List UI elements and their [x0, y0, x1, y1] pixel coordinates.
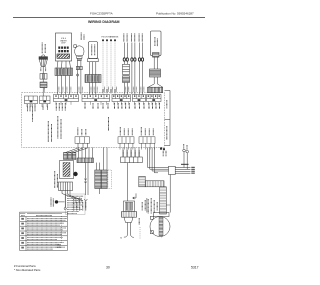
thermistor pair 3 wires	[139, 43, 141, 59]
dispenser heater bar	[57, 54, 70, 58]
terminal strip P3	[54, 95, 79, 102]
defrost heater wires	[96, 163, 98, 170]
auger connector J2	[85, 75, 101, 83]
terminal id marks	[160, 148, 165, 151]
start relay box	[169, 166, 176, 174]
legend table frame	[20, 212, 68, 250]
door switch label	[42, 43, 45, 54]
harness bundle vertical	[160, 187, 167, 214]
svg-text:30: 30	[106, 266, 110, 270]
board bottom header B3	[141, 127, 153, 136]
evap fan motor M2	[124, 201, 135, 212]
thermistor pair 2 wires	[131, 43, 133, 59]
svg-text:DISP: DISP	[61, 43, 66, 45]
compressor overload cap	[154, 213, 170, 217]
auger motor M1	[89, 42, 98, 59]
svg-text:# Functional Parts: # Functional Parts	[14, 264, 36, 268]
compressor winding bar	[159, 217, 163, 235]
wire arrows lower	[84, 199, 87, 201]
pin stubs under strips	[27, 102, 159, 108]
ice and water dispenser U1	[56, 33, 72, 61]
notes box	[66, 194, 85, 215]
power module connector	[59, 182, 73, 191]
ice maker plug	[153, 53, 160, 58]
ice maker flare to board header	[149, 84, 155, 93]
fan circuit wires down	[85, 163, 87, 195]
thermistor block B	[123, 76, 130, 83]
heater shield dashed	[108, 170, 112, 189]
main control board outline	[22, 93, 165, 148]
inline connector 2	[40, 82, 47, 88]
svg-text:FZ DR HARNESS: FZ DR HARNESS	[102, 35, 119, 38]
dispenser wires to board	[57, 76, 59, 95]
legend rows text	[21, 218, 67, 249]
compressor side text	[138, 218, 140, 225]
defrost heater element E1	[95, 170, 101, 189]
module harness fan	[62, 191, 76, 204]
board bottom header B1	[78, 128, 86, 136]
auger motor base	[88, 59, 99, 62]
wire chevrons	[84, 179, 87, 181]
auger motor wires	[89, 62, 91, 75]
harness bundle horizontal	[145, 181, 164, 187]
wire color legend rotated	[74, 198, 86, 211]
svg-text:WIRING DIAGRAM: WIRING DIAGRAM	[88, 20, 120, 24]
evap fan motor label block	[142, 198, 157, 214]
harness connector left	[139, 176, 145, 187]
strip center marks	[30, 99, 156, 102]
water valve wires	[77, 61, 79, 95]
water valve base	[77, 56, 82, 59]
terminal strip P2	[40, 96, 51, 104]
evap fan leads	[126, 223, 128, 236]
door switch lamp bar	[39, 57, 48, 60]
relay routing wires	[148, 148, 169, 168]
svg-text:5317: 5317	[191, 266, 199, 270]
terminal strip P7	[147, 95, 162, 102]
water valve inline connectors	[76, 66, 79, 69]
ice maker wires lower	[153, 77, 155, 84]
power entry terminals	[64, 153, 68, 160]
side panel labels	[166, 100, 168, 140]
thermistor pair 2 labels	[132, 34, 135, 43]
wire entry tag smudges	[45, 87, 159, 92]
dispenser connector J1	[55, 68, 73, 76]
terminal strip P4	[82, 95, 110, 102]
thermistor pair 1 wires	[123, 43, 125, 59]
compressor terminal lower	[150, 231, 153, 234]
evap fan flare	[124, 217, 133, 222]
harness pin marks	[102, 39, 116, 41]
board side panel divider	[165, 119, 171, 121]
evap fan connector	[122, 212, 137, 218]
svg-text:* Non-Illustrated Parts: * Non-Illustrated Parts	[14, 268, 41, 272]
svg-text:FGHC2355PF?A: FGHC2355PF?A	[90, 12, 113, 16]
lead hooks	[124, 236, 127, 238]
b2 b3 pin stubs	[120, 143, 154, 149]
power module side label	[55, 171, 58, 188]
defrost heater element E2	[101, 170, 107, 189]
heater stub	[99, 189, 101, 195]
ice maker inline connector	[150, 69, 161, 77]
ice maker IM1	[151, 31, 162, 56]
wire from block to evap	[126, 163, 128, 201]
power entry wires from board	[77, 143, 79, 148]
header rule	[13, 17, 205, 19]
dashed ground run	[61, 216, 63, 243]
capacitor terminals	[183, 149, 186, 152]
ice maker wires	[153, 57, 155, 69]
wire door switch to board	[42, 67, 44, 97]
board bottom header B2	[120, 127, 132, 136]
door switch lamp dome	[42, 55, 45, 57]
pin wire labels under strips	[28, 103, 160, 122]
relay output lines	[175, 167, 190, 169]
thermistor pair 1 labels	[124, 34, 127, 43]
wire tag marks	[40, 68, 42, 72]
thermistor pair 1 bullets	[123, 58, 125, 61]
wire into compressor cap	[146, 198, 148, 213]
board side panel edge	[165, 91, 171, 146]
legend table header text	[20, 213, 62, 215]
compressor C1	[150, 217, 170, 237]
harness wire end ticks	[103, 89, 115, 93]
board name rotated text	[48, 116, 108, 142]
connector row under board (fan circuit)	[78, 148, 80, 159]
junction dot	[73, 172, 77, 176]
ground symbol G1	[55, 200, 58, 203]
terminal strip P5	[112, 95, 131, 102]
door switch lamp body	[39, 59, 47, 66]
dispenser switch matrix	[58, 47, 68, 53]
wire down from module	[64, 191, 66, 208]
relay to compressor wire	[169, 175, 171, 213]
inline connector 1	[40, 74, 47, 80]
svg-text:Publication No: 5995546287: Publication No: 5995546287	[156, 12, 194, 16]
compressor terminal upper	[150, 216, 153, 219]
freezer harness label	[102, 35, 119, 38]
compressor ground mark	[160, 237, 163, 239]
diode symbol	[134, 193, 136, 198]
load terminal block TB1	[123, 151, 139, 157]
power supply module K1	[60, 161, 74, 179]
thermistor pair 3 labels	[139, 34, 142, 43]
water valve V1	[75, 46, 84, 57]
terminal strip P6	[133, 95, 146, 102]
thermistor block A	[123, 64, 130, 74]
dashed harness wires	[103, 42, 115, 95]
water valve label	[81, 33, 84, 41]
auger wires to board	[89, 83, 91, 95]
terminal strip P1	[25, 96, 38, 104]
dashed line left of compressor	[139, 227, 141, 239]
ice maker board header strip	[148, 87, 163, 92]
dispenser harness wires	[57, 61, 58, 68]
